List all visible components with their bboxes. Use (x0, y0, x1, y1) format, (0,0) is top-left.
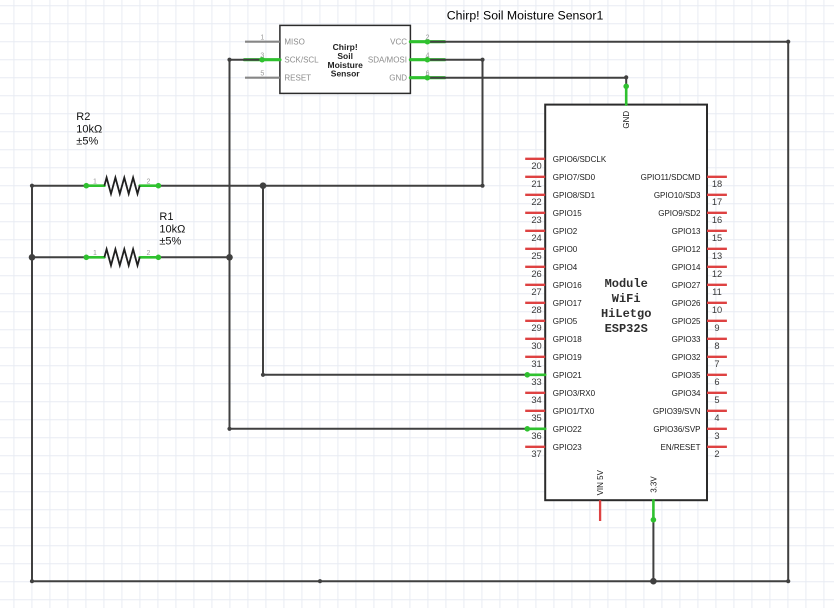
svg-text:±5%: ±5% (76, 136, 98, 148)
svg-text:GPIO39/SVN: GPIO39/SVN (653, 407, 701, 416)
svg-text:GPIO13: GPIO13 (672, 227, 701, 236)
svg-text:3.3V: 3.3V (649, 476, 658, 493)
svg-text:GPIO1/TX0: GPIO1/TX0 (553, 407, 595, 416)
svg-text:GND: GND (622, 111, 631, 129)
svg-text:17: 17 (712, 197, 722, 207)
svg-text:5: 5 (260, 70, 264, 77)
svg-text:SCK/SCL: SCK/SCL (284, 56, 319, 65)
svg-text:1: 1 (93, 250, 97, 257)
svg-text:6: 6 (714, 377, 719, 387)
svg-text:GPIO34: GPIO34 (672, 389, 701, 398)
svg-text:23: 23 (531, 215, 541, 225)
svg-text:22: 22 (531, 197, 541, 207)
svg-text:GPIO36/SVP: GPIO36/SVP (653, 425, 700, 434)
svg-text:18: 18 (712, 179, 722, 189)
svg-text:35: 35 (531, 413, 541, 423)
svg-text:8: 8 (714, 341, 719, 351)
svg-text:GPIO10/SD3: GPIO10/SD3 (654, 191, 701, 200)
svg-text:2: 2 (147, 250, 151, 257)
svg-text:29: 29 (531, 323, 541, 333)
svg-text:25: 25 (531, 251, 541, 261)
svg-text:GPIO6/SDCLK: GPIO6/SDCLK (553, 155, 607, 164)
svg-text:GND: GND (389, 74, 407, 83)
svg-text:21: 21 (531, 179, 541, 189)
svg-text:9: 9 (714, 323, 719, 333)
svg-text:GPIO22: GPIO22 (553, 425, 582, 434)
svg-text:10: 10 (712, 305, 722, 315)
svg-text:GPIO11/SDCMD: GPIO11/SDCMD (641, 173, 701, 182)
svg-text:11: 11 (712, 287, 722, 297)
svg-text:16: 16 (712, 215, 722, 225)
svg-text:24: 24 (531, 233, 541, 243)
svg-text:10kΩ: 10kΩ (159, 223, 185, 235)
svg-text:1: 1 (93, 178, 97, 185)
svg-text:Module: Module (605, 277, 648, 291)
svg-text:4: 4 (426, 52, 430, 59)
svg-text:GPIO32: GPIO32 (672, 353, 701, 362)
svg-text:±5%: ±5% (159, 236, 181, 248)
svg-text:GPIO16: GPIO16 (553, 281, 582, 290)
svg-text:37: 37 (531, 449, 541, 459)
svg-text:GPIO25: GPIO25 (672, 317, 701, 326)
svg-text:7: 7 (714, 359, 719, 369)
svg-text:GPIO2: GPIO2 (553, 227, 578, 236)
svg-text:GPIO18: GPIO18 (553, 335, 582, 344)
svg-text:GPIO35: GPIO35 (672, 371, 701, 380)
svg-text:GPIO3/RX0: GPIO3/RX0 (553, 389, 596, 398)
svg-text:GPIO14: GPIO14 (672, 263, 701, 272)
svg-text:GPIO0: GPIO0 (553, 245, 578, 254)
svg-text:GPIO26: GPIO26 (672, 299, 701, 308)
svg-text:Chirp! Soil Moisture Sensor1: Chirp! Soil Moisture Sensor1 (447, 9, 604, 23)
svg-text:1: 1 (260, 34, 264, 41)
svg-text:GPIO23: GPIO23 (553, 443, 582, 452)
svg-text:GPIO27: GPIO27 (672, 281, 701, 290)
svg-text:VIN 5V: VIN 5V (596, 469, 605, 495)
svg-text:33: 33 (531, 377, 541, 387)
svg-text:EN/RESET: EN/RESET (660, 443, 700, 452)
svg-text:GPIO7/SD0: GPIO7/SD0 (553, 173, 596, 182)
svg-text:GPIO8/SD1: GPIO8/SD1 (553, 191, 596, 200)
svg-text:R2: R2 (76, 111, 90, 123)
svg-text:36: 36 (531, 431, 541, 441)
svg-text:20: 20 (531, 161, 541, 171)
svg-text:HiLetgo: HiLetgo (601, 307, 651, 321)
svg-text:26: 26 (531, 269, 541, 279)
svg-text:3: 3 (714, 431, 719, 441)
svg-text:6: 6 (426, 70, 430, 77)
svg-text:GPIO12: GPIO12 (672, 245, 701, 254)
svg-text:27: 27 (531, 287, 541, 297)
svg-text:SDA/MOSI: SDA/MOSI (368, 56, 407, 65)
svg-text:GPIO15: GPIO15 (553, 209, 582, 218)
svg-text:10kΩ: 10kΩ (76, 123, 102, 135)
svg-text:13: 13 (712, 251, 722, 261)
svg-text:R1: R1 (159, 211, 173, 223)
svg-text:GPIO4: GPIO4 (553, 263, 578, 272)
svg-text:12: 12 (712, 269, 722, 279)
svg-text:3: 3 (260, 52, 264, 59)
svg-text:4: 4 (714, 413, 719, 423)
svg-text:28: 28 (531, 305, 541, 315)
svg-text:ESP32S: ESP32S (605, 322, 648, 336)
svg-text:34: 34 (531, 395, 541, 405)
svg-text:GPIO5: GPIO5 (553, 317, 578, 326)
svg-text:2: 2 (714, 449, 719, 459)
svg-text:GPIO9/SD2: GPIO9/SD2 (658, 209, 701, 218)
svg-text:GPIO33: GPIO33 (672, 335, 701, 344)
svg-text:15: 15 (712, 233, 722, 243)
svg-text:MISO: MISO (284, 38, 304, 47)
svg-text:RESET: RESET (284, 74, 311, 83)
svg-text:30: 30 (531, 341, 541, 351)
svg-text:2: 2 (426, 34, 430, 41)
svg-text:GPIO19: GPIO19 (553, 353, 582, 362)
svg-text:WiFi: WiFi (612, 292, 641, 306)
svg-text:31: 31 (531, 359, 541, 369)
svg-text:Sensor: Sensor (331, 69, 361, 79)
svg-text:VCC: VCC (390, 38, 407, 47)
svg-text:5: 5 (714, 395, 719, 405)
svg-text:GPIO21: GPIO21 (553, 371, 582, 380)
svg-text:GPIO17: GPIO17 (553, 299, 582, 308)
svg-text:2: 2 (147, 178, 151, 185)
